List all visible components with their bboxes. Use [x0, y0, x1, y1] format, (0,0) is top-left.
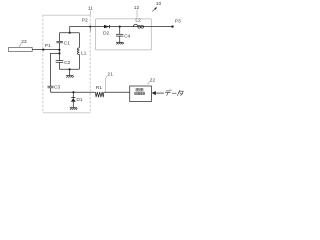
svg-text:L1: L1: [81, 50, 87, 56]
modulation rail: [51, 91, 96, 93]
wire R1 to control box: [104, 91, 130, 93]
capacitor C1: [56, 40, 62, 42]
antenna strip 23: [9, 47, 33, 51]
wire loop left lower: [58, 62, 60, 69]
label data: [165, 90, 183, 96]
svg-text:23: 23: [21, 39, 27, 45]
capacitor C4: [116, 33, 123, 35]
glyph ta: [177, 90, 179, 96]
wire strip to resonant loop (node P1 line): [32, 49, 59, 51]
svg-text:R1: R1: [96, 85, 103, 91]
svg-text:21: 21: [107, 71, 113, 77]
terminal P3: [171, 25, 173, 27]
wire loop left middle: [58, 43, 60, 61]
node dot C4 junction: [119, 26, 121, 28]
node dot D1 tap: [72, 91, 74, 93]
svg-text:C2: C2: [64, 60, 71, 66]
wire C4 stem lower: [119, 36, 121, 42]
inductor L2: [133, 24, 138, 26]
wire D1 to ground: [72, 102, 74, 108]
glyph de: [166, 90, 170, 92]
svg-text:12: 12: [134, 5, 140, 11]
diode D1: [71, 97, 75, 99]
resistor R1: [95, 92, 103, 97]
svg-text:P2: P2: [82, 18, 88, 24]
ground below C4: [116, 42, 124, 44]
module box 11 (dashed boundary): [43, 15, 90, 113]
wire C3 to rail: [50, 88, 52, 92]
node dot at box 11 edge: [89, 26, 91, 28]
svg-text:L2: L2: [135, 18, 141, 24]
capacitor C2: [56, 60, 64, 62]
svg-text:C4: C4: [124, 34, 131, 40]
module box 12 (thin boundary): [96, 19, 152, 50]
wire loop top: [59, 32, 79, 34]
wire riser to P2 rail: [70, 27, 173, 33]
ground below loop: [66, 76, 74, 78]
svg-text:C1: C1: [64, 40, 71, 46]
inductor L1: [77, 48, 79, 55]
leader of label 23: [19, 43, 22, 47]
capacitor C3: [48, 85, 54, 87]
node dot loop top to P2: [69, 32, 71, 34]
wire D1 stem: [72, 92, 74, 97]
node dot P1 tap: [58, 49, 60, 51]
data input arrow: [152, 91, 156, 95]
svg-text:10: 10: [156, 1, 162, 7]
svg-text:22: 22: [150, 77, 156, 83]
ground tap on loop bottom: [69, 68, 71, 70]
wire C4 stem upper: [119, 27, 121, 35]
leader of label 11: [89, 10, 91, 15]
glyph long dash: [172, 92, 177, 94]
svg-text:D1: D1: [76, 97, 83, 103]
ground below D1: [70, 108, 78, 110]
diode D2: [104, 25, 109, 28]
terminal P1: [42, 49, 44, 51]
control box 22: [130, 86, 152, 102]
svg-text:C3: C3: [54, 84, 61, 90]
box 22 text (vector kanji): [135, 88, 145, 94]
svg-text:P1: P1: [45, 43, 51, 49]
wire loop bottom: [59, 68, 79, 70]
wire loop right lower: [78, 54, 80, 69]
node dot C3 tap: [58, 52, 60, 54]
wire C3 branch: tap to C3: [51, 53, 60, 86]
wire loop left upper: [58, 33, 60, 42]
wire loop right upper: [78, 33, 80, 48]
svg-text:D2: D2: [103, 31, 110, 37]
svg-text:P3: P3: [175, 18, 181, 24]
leader of label 12: [136, 10, 138, 19]
